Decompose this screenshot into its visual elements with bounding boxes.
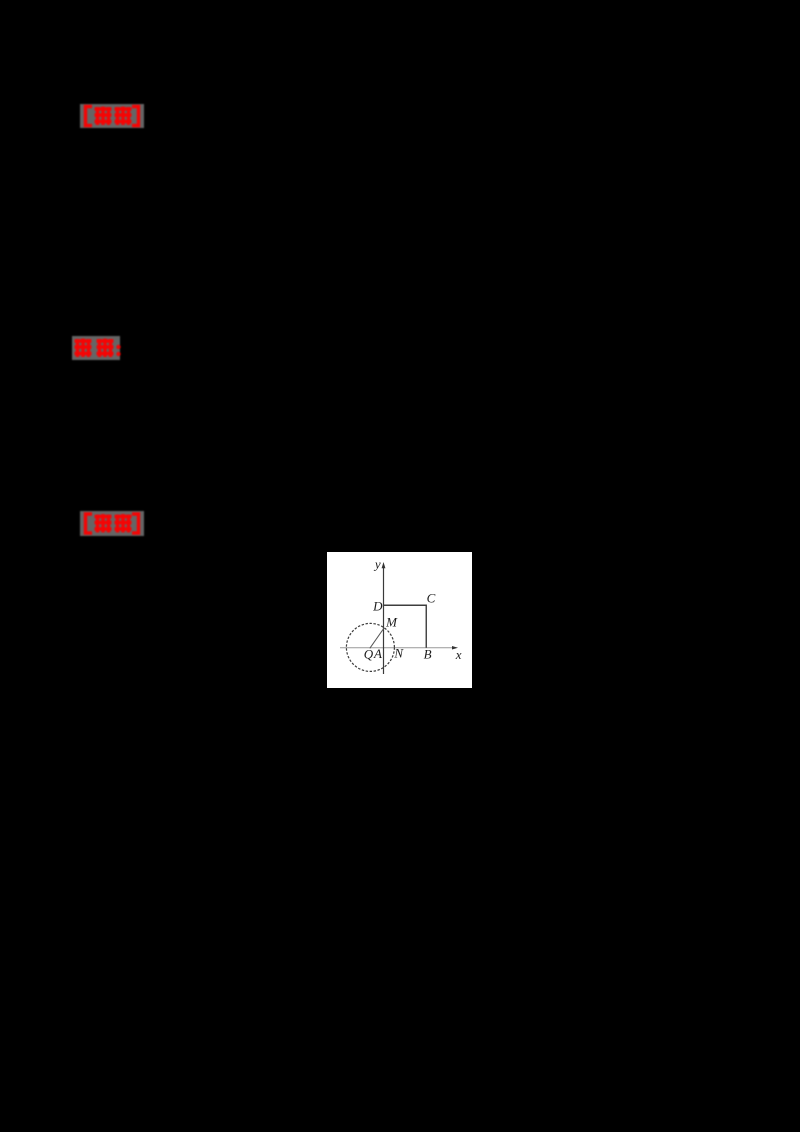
rectangle ABCD (top side DC and right side CB)	[384, 605, 427, 648]
svg-text:C: C	[427, 591, 436, 606]
svg-text:M: M	[385, 615, 398, 630]
radius line QM	[370, 628, 384, 649]
svg-text:B: B	[424, 647, 432, 662]
svg-text:D: D	[372, 599, 383, 614]
x-axis arrowhead	[452, 646, 458, 650]
dashed circle centered at Q	[346, 623, 394, 671]
red highlighted heading block 2 (two red chars + colon on gray highlight)	[72, 336, 126, 360]
svg-text:A: A	[373, 646, 382, 661]
y-axis	[383, 566, 385, 674]
x-axis	[340, 647, 455, 649]
red highlighted heading block 1 (【..】 red text on gray highlight)	[80, 104, 144, 128]
svg-text:N: N	[393, 646, 404, 661]
svg-text:Q: Q	[364, 647, 374, 662]
y-axis arrowhead	[382, 562, 386, 568]
figure: white panel with coordinate-geometry diagram	[327, 552, 472, 688]
svg-text:y: y	[373, 557, 381, 572]
svg-text:x: x	[455, 647, 462, 662]
red highlighted heading block 3 (【..】 red text on gray highlight)	[80, 511, 144, 536]
